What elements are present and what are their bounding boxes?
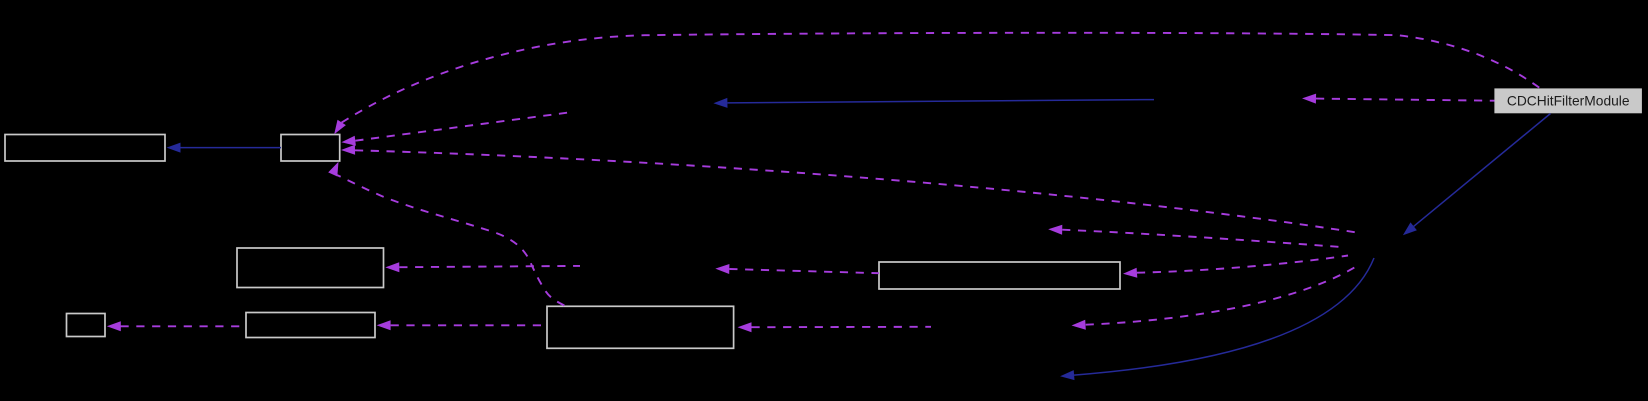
purple segment F to G — [107, 321, 246, 331]
node box F — [246, 313, 375, 338]
purple fan hub to D — [1123, 256, 1348, 278]
purple segment to E right — [738, 322, 932, 332]
purple arrow from CDCHitFilterModule left — [1302, 94, 1495, 104]
blue inheritance arrow B to A — [167, 143, 282, 153]
purple long line hub to B right lower — [341, 145, 1360, 233]
purple top long curve CDCHitFilterModule to B — [334, 33, 1540, 134]
purple arrow to B right upper — [341, 113, 568, 146]
node box D — [879, 262, 1120, 289]
blue inheritance curve hub to bottom-left — [1060, 258, 1374, 380]
node box A (top-left wide) — [5, 135, 165, 162]
node box G (small) — [67, 314, 106, 337]
node box E (tall) — [547, 306, 734, 348]
blue inheritance arrow CDCHitFilterModule to hub — [1403, 114, 1551, 236]
node box C — [237, 248, 384, 288]
purple fan hub to mid-air head lower — [1072, 266, 1358, 330]
node CDCHitFilterModule — [1495, 89, 1642, 113]
svg-text:CDCHitFilterModule: CDCHitFilterModule — [1507, 93, 1630, 108]
purple fan hub to mid-air head upper — [1048, 225, 1341, 247]
purple segment E to F — [377, 320, 547, 330]
blue inheritance arrow mid row (to invisible node) — [713, 98, 1154, 108]
purple segment D to invisible node — [715, 264, 879, 274]
purple S-curve E top to B bottom — [328, 162, 566, 307]
purple segment to C right — [385, 262, 580, 272]
node box B (small) — [281, 135, 340, 162]
